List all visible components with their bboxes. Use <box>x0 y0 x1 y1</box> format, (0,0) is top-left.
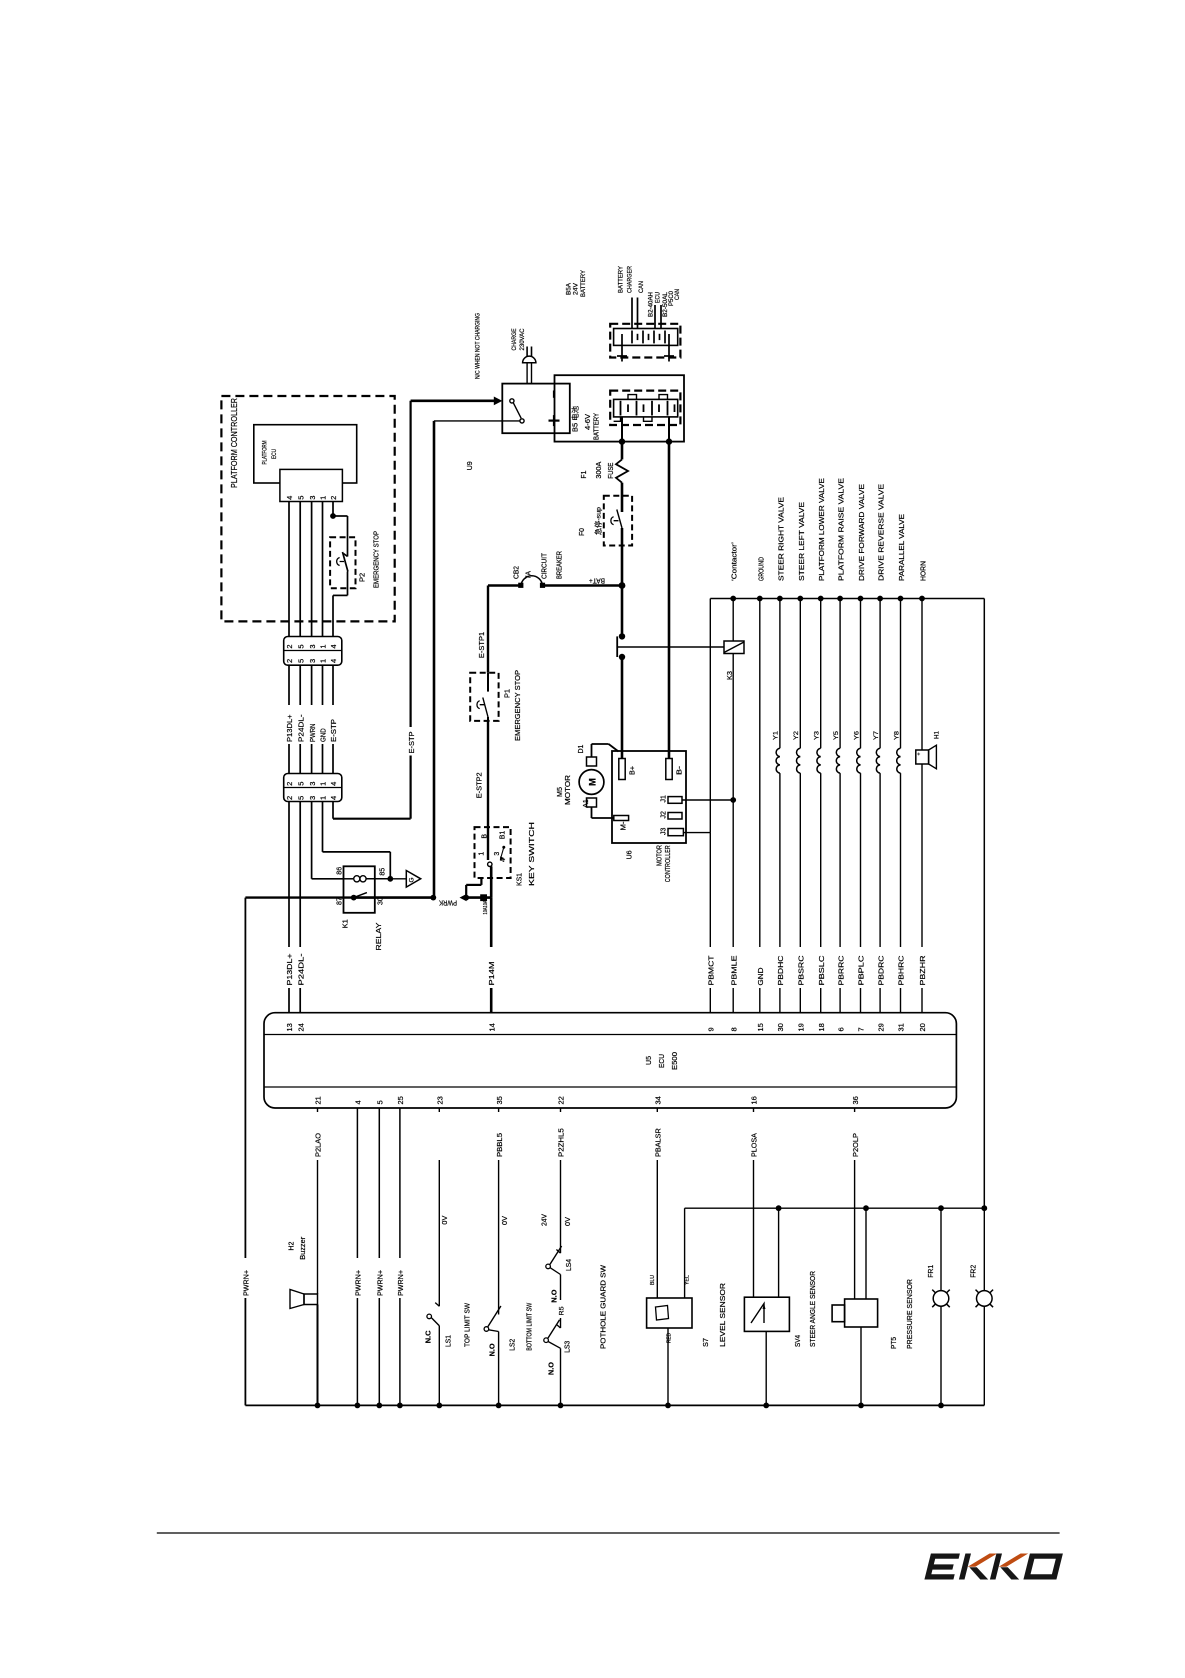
motor brush A1 <box>587 798 597 807</box>
wire PWRN between connectors <box>311 665 313 773</box>
net label PWRK (rotated 180) <box>439 899 457 906</box>
PWRN+ line x399.9 <box>399 1108 401 1405</box>
label 300A <box>596 461 603 478</box>
label B2-50AL <box>662 291 669 317</box>
svg-text:85: 85 <box>380 868 387 876</box>
wire pin2 upper segment <box>332 502 334 517</box>
rail label DRIVE REVERSE VALV <box>877 484 886 581</box>
lamp FR1 to bus <box>940 1306 942 1405</box>
PT5 bottom wire <box>860 1327 862 1405</box>
valve coil Y5 <box>836 599 840 1013</box>
svg-text:Y7: Y7 <box>873 731 880 740</box>
net label PWRN+ x357.4 <box>354 1269 363 1296</box>
horn line upper <box>921 599 923 751</box>
svg-text:CB2: CB2 <box>514 566 521 579</box>
svg-text:Y6: Y6 <box>853 731 860 740</box>
svg-text:PBZHR: PBZHR <box>918 955 927 986</box>
svg-text:+: + <box>917 752 923 755</box>
interlock pivot 1 <box>510 399 514 403</box>
pothole mid line <box>560 1275 562 1329</box>
svg-text:B: B <box>482 834 489 839</box>
lower connector pin 5 row1 <box>296 782 305 786</box>
svg-text:16: 16 <box>750 1096 759 1104</box>
svg-text:POTHOLE GUARD SW: POTHOLE GUARD SW <box>601 1265 608 1349</box>
label PRESSURE SENSOR <box>907 1279 914 1349</box>
wire E-STP down-right <box>333 802 411 819</box>
svg-text:B5A: B5A <box>566 283 573 295</box>
LS2 stub <box>489 1330 499 1332</box>
label 230VAC <box>519 328 526 350</box>
S7 internal element <box>656 1306 669 1321</box>
SV4 internal element <box>751 1304 766 1324</box>
wire KS1 to ECU pin14 <box>490 898 493 1013</box>
svg-text:CAN: CAN <box>638 281 645 293</box>
upper connector pin 2 row2 <box>285 659 294 663</box>
node FR1/bus <box>938 1403 944 1409</box>
P1 contact segment <box>487 673 489 692</box>
label LEVEL SENSOR <box>720 1283 727 1347</box>
svg-text:3: 3 <box>494 852 501 856</box>
lamp FR2 <box>976 1290 994 1308</box>
net label PBSLC <box>817 955 826 986</box>
steer angle line from pin16 <box>750 1108 759 1297</box>
label 10A10A <box>483 900 489 914</box>
label ECU <box>657 1054 666 1068</box>
svg-text:5: 5 <box>376 1100 385 1104</box>
net label PBPLC <box>857 955 866 986</box>
ECU bottom pin 4 <box>354 1100 363 1104</box>
rail label PLATFORM LOWER VAL <box>817 478 826 581</box>
arrow into interlock switch <box>494 397 503 406</box>
LS3 lever <box>548 1320 560 1339</box>
battery B5A terminal stub 1 <box>617 345 627 361</box>
svg-text:8: 8 <box>729 1027 738 1031</box>
net label GND <box>319 728 328 742</box>
svg-text:6: 6 <box>836 1027 845 1031</box>
svg-text:5: 5 <box>296 496 305 500</box>
KS1 feed segment <box>487 827 489 860</box>
rail label HORN <box>919 561 928 581</box>
ECU top pin 30 <box>776 1023 785 1031</box>
node K1 common <box>351 895 357 901</box>
svg-text:B-: B- <box>677 765 684 775</box>
node pothole/bus <box>558 1403 564 1409</box>
label 24V <box>542 1214 549 1226</box>
svg-text:Y3: Y3 <box>814 731 821 740</box>
F0 switch lever <box>617 510 622 529</box>
label H2 <box>289 1241 296 1250</box>
label CAN (charger) <box>638 281 645 293</box>
label FR1 <box>928 1265 935 1278</box>
ECU bottom pin 21 <box>314 1096 323 1104</box>
label J3 <box>661 828 668 836</box>
svg-text:N/C WHEN NOT CHARGING: N/C WHEN NOT CHARGING <box>475 313 482 379</box>
svg-text:P24DL-: P24DL- <box>296 953 305 986</box>
valve coil Y8 <box>897 599 901 1013</box>
upper connector pin 5 row2 <box>296 659 305 663</box>
svg-text:36: 36 <box>851 1096 860 1104</box>
lower connector pin 1 row1 <box>319 782 328 786</box>
svg-text:4: 4 <box>329 782 338 786</box>
ground line GND <box>759 599 761 1013</box>
LS1 lever <box>431 1318 439 1326</box>
node PWRN+/bus x399.9 <box>397 1403 403 1409</box>
label M (motor) <box>588 778 599 786</box>
svg-text:CHARGE: CHARGE <box>511 329 518 351</box>
svg-text:PBBL5: PBBL5 <box>495 1133 504 1157</box>
svg-text:30: 30 <box>378 897 385 905</box>
svg-text:86: 86 <box>337 867 344 875</box>
lower connector pin 1 row2 <box>319 796 328 800</box>
upper connector pin 1 row2 <box>319 659 328 663</box>
svg-text:E-STP2: E-STP2 <box>477 772 484 798</box>
svg-text:24V: 24V <box>542 1214 549 1226</box>
ECU top pin 15 <box>756 1023 765 1031</box>
svg-text:18: 18 <box>817 1023 826 1031</box>
ECU bottom pin 36 <box>851 1096 860 1104</box>
steer angle sensor SV4 box <box>744 1297 789 1331</box>
svg-text:EMERGENCY STOP: EMERGENCY STOP <box>513 670 522 741</box>
contactor coil K3 box <box>724 641 744 654</box>
svg-text:25: 25 <box>396 1096 405 1104</box>
upper connector pin 3 row2 <box>308 659 317 663</box>
svg-text:E-STP1: E-STP1 <box>477 632 486 658</box>
svg-text:CAN: CAN <box>674 289 681 300</box>
wire pin2 jog to P2 <box>333 516 348 557</box>
lamp FR1 <box>932 1290 950 1308</box>
svg-text:Y5: Y5 <box>833 731 840 740</box>
net label P13DL+ at ECU <box>285 953 294 986</box>
svg-text:LS3: LS3 <box>565 1341 572 1353</box>
svg-text:ECU: ECU <box>655 292 662 303</box>
svg-text:FR1: FR1 <box>928 1265 935 1278</box>
wire E-STP riser <box>410 401 412 819</box>
wire J3 riser <box>683 599 710 833</box>
battery B5A cell box <box>614 329 678 346</box>
P2 switch contact <box>344 554 348 557</box>
pressure line from pin36 <box>851 1108 860 1299</box>
horn H1 symbol <box>916 745 937 769</box>
label M- <box>621 821 628 831</box>
KS1 pin 1 label <box>479 852 486 856</box>
wire pin8 drop <box>732 800 734 1013</box>
svg-text:YEL: YEL <box>685 1275 691 1285</box>
ECU top pin 29 <box>876 1023 885 1031</box>
battery B5 plates <box>621 401 675 416</box>
svg-text:P24DL-: P24DL- <box>296 714 305 742</box>
key switch KS1 dashed box <box>475 827 511 878</box>
svg-text:KS1: KS1 <box>515 873 524 886</box>
label BATTERY (charger) <box>618 265 625 293</box>
svg-text:0V: 0V <box>565 1217 572 1226</box>
svg-text:S7: S7 <box>703 1338 710 1347</box>
label P1 <box>503 689 512 698</box>
label SV4 <box>795 1335 802 1347</box>
svg-text:7A: 7A <box>526 571 533 579</box>
svg-text:HORN: HORN <box>919 561 928 581</box>
svg-text:2: 2 <box>285 659 294 663</box>
upper connector pin 2 row1 <box>285 644 294 648</box>
svg-text:PBSLC: PBSLC <box>817 955 826 986</box>
P2 mushroom actuator <box>337 558 344 566</box>
svg-text:31: 31 <box>897 1023 906 1031</box>
svg-text:GND: GND <box>319 728 328 742</box>
svg-text:3: 3 <box>308 659 317 663</box>
ECU U5 box <box>264 1013 956 1108</box>
wire charger CAN a <box>631 298 633 329</box>
lower connector pin 4 row2 <box>329 796 338 800</box>
svg-text:CONTROLLER: CONTROLLER <box>665 845 672 882</box>
LS3 contact tick <box>556 1324 560 1328</box>
upper connector divider <box>284 650 342 652</box>
label B- <box>677 765 684 775</box>
svg-text:LS2: LS2 <box>510 1339 517 1351</box>
svg-text:B1: B1 <box>500 831 507 840</box>
buzzer line to bus <box>317 1305 319 1406</box>
contactor line mid <box>732 654 734 801</box>
label EMERGENCY STOP (P1) <box>513 670 522 741</box>
battery B5 bottom jumpers <box>614 417 652 421</box>
net label P24DL- at ECU <box>296 953 305 986</box>
svg-text:J1: J1 <box>661 795 668 803</box>
svg-text:300A: 300A <box>596 461 603 478</box>
node J1/contactor <box>730 797 736 803</box>
node PT5/bus <box>858 1403 864 1409</box>
motor M5 circle <box>579 770 604 795</box>
svg-text:230VAC: 230VAC <box>519 328 526 350</box>
svg-text:LS1: LS1 <box>446 1335 453 1347</box>
level sensor S7 box <box>647 1298 692 1328</box>
svg-text:DRIVE FORWARD VALVE: DRIVE FORWARD VALVE <box>857 484 866 581</box>
minus sign (charger out) <box>553 391 555 398</box>
wire pin3 platform <box>311 502 313 637</box>
sensor rail <box>685 1207 985 1209</box>
svg-text:PWRN+: PWRN+ <box>242 1269 251 1296</box>
ECU top pin 31 <box>897 1023 906 1031</box>
lower connector pin 4 row1 <box>329 782 338 786</box>
CB2 end square 2 <box>540 583 545 588</box>
svg-text:U6: U6 <box>625 850 634 859</box>
P1 switch lever <box>483 698 488 718</box>
label ECU <box>271 449 278 459</box>
lower connector pin 3 row1 <box>308 782 317 786</box>
svg-text:P14M: P14M <box>487 962 496 986</box>
wire fuse to F0 <box>621 483 624 512</box>
svg-text:PWRN: PWRN <box>308 724 317 742</box>
svg-text:PLATFORM CONTROLLER: PLATFORM CONTROLLER <box>230 398 239 488</box>
ECU top pin 13 <box>285 1023 294 1031</box>
charge plug cord <box>527 363 531 384</box>
KS1 pin 4 label <box>500 858 507 862</box>
disconnect F0 dashed box <box>604 496 632 546</box>
wire E-STP1 <box>487 586 489 673</box>
label D1 <box>578 744 585 753</box>
label 0V (pothole) <box>565 1217 572 1226</box>
label STEER ANGLE SENSOR <box>810 1271 817 1347</box>
label LS3 <box>565 1341 572 1353</box>
node S7/bus <box>665 1403 671 1409</box>
svg-text:24: 24 <box>296 1023 305 1031</box>
battery B5 top jumpers <box>628 395 668 400</box>
K1 switch wire out <box>354 896 434 899</box>
emergency stop P2 dashed box <box>330 537 355 588</box>
ECU bottom pin 16 <box>750 1096 759 1104</box>
P1 mushroom actuator <box>477 701 485 709</box>
rail junction nodes <box>730 596 925 602</box>
label Y5 <box>833 731 840 740</box>
wire E-STP between connectors <box>332 665 334 773</box>
label N.O (LS4) <box>550 1289 559 1302</box>
svg-text:1: 1 <box>319 782 328 786</box>
label H1 <box>934 731 941 739</box>
LS1 contact tick <box>435 1303 439 1307</box>
svg-text:PWRK: PWRK <box>439 899 457 906</box>
tab pin 2 <box>329 496 338 500</box>
label FR2 <box>971 1265 978 1278</box>
battery B5 dashed box <box>610 391 680 425</box>
svg-text:2: 2 <box>285 796 294 800</box>
label P2 <box>358 573 367 582</box>
U6 terminal B- <box>666 759 672 780</box>
wire GND between connectors <box>322 665 324 773</box>
EKKO logo <box>924 1554 1062 1580</box>
platform connector tab <box>280 469 343 501</box>
label N/C WHEN NOT CHARGING <box>475 313 482 379</box>
net label PWRN+ x379.3 <box>376 1269 385 1296</box>
label MOTOR (M5) <box>565 775 572 805</box>
svg-text:SV4: SV4 <box>795 1335 802 1347</box>
wire E-STP2 <box>487 717 489 827</box>
label B5 DianChi <box>571 406 580 432</box>
LS1 lower line <box>438 1326 440 1406</box>
svg-text:2: 2 <box>285 782 294 786</box>
label BAT+ (rotated) <box>589 577 605 584</box>
svg-text:BAT+: BAT+ <box>589 577 605 584</box>
svg-text:9: 9 <box>707 1027 716 1031</box>
svg-text:3: 3 <box>308 496 317 500</box>
svg-text:CHARGER: CHARGER <box>627 266 634 293</box>
label CONTROLLER <box>665 845 672 882</box>
supply rail <box>710 598 984 600</box>
LS4 pivot <box>546 1264 551 1269</box>
svg-text:BATTERY: BATTERY <box>618 265 625 293</box>
svg-text:Y1: Y1 <box>773 731 780 740</box>
svg-text:STEER RIGHT VALVE: STEER RIGHT VALVE <box>776 497 785 581</box>
svg-text:22: 22 <box>557 1096 566 1104</box>
label F0 <box>579 528 586 536</box>
svg-text:U9: U9 <box>465 461 474 470</box>
circuit breaker CB2 arc <box>521 576 543 586</box>
U6 terminal B+ <box>619 759 625 780</box>
fuse F1 300A <box>616 459 628 482</box>
CB2 end square 1 <box>518 583 523 588</box>
label BREAKER <box>557 551 564 579</box>
svg-text:20: 20 <box>918 1023 927 1031</box>
battery B5A terminal stub 2 <box>664 345 674 361</box>
ECU inner line bottom <box>264 1086 956 1088</box>
contactor main contact bar <box>616 636 618 657</box>
KS1 pin 3 label <box>494 852 501 856</box>
K3 coil diagonal <box>724 642 744 653</box>
label Buzzer <box>300 1236 307 1260</box>
svg-text:4-6V: 4-6V <box>585 414 592 430</box>
label K3 <box>727 671 734 680</box>
net label P14M <box>487 962 496 986</box>
valve coil Y1 <box>776 599 780 1013</box>
sensor rail nodes <box>776 1205 988 1211</box>
svg-text:Y2: Y2 <box>793 731 800 740</box>
upper connector pin 1 row1 <box>319 644 328 648</box>
label A1 <box>583 799 590 808</box>
buzzer line from pin21 <box>314 1108 323 1294</box>
K1 pin 30 label <box>378 897 385 905</box>
ECU top pin 18 <box>817 1023 826 1031</box>
svg-text:RED: RED <box>667 1333 673 1343</box>
U6 terminal J3 <box>668 829 683 836</box>
wire charger CAN b <box>637 298 639 329</box>
pothole lower line <box>560 1348 562 1405</box>
rail label STEER LEFT VALVE <box>797 502 806 581</box>
S7 YEL wire <box>684 1208 686 1298</box>
svg-text:CIRCUIT: CIRCUIT <box>542 552 549 579</box>
svg-text:N.O: N.O <box>488 1343 497 1356</box>
ECU top pin 20 <box>918 1023 927 1031</box>
svg-text:PBPLC: PBPLC <box>857 955 866 986</box>
label LS1 <box>446 1335 453 1347</box>
svg-text:15: 15 <box>756 1023 765 1031</box>
ECU top pin 9 <box>707 1027 716 1031</box>
lower connector pin 5 row2 <box>296 796 305 800</box>
svg-text:EMERGENCY STOP: EMERGENCY STOP <box>372 531 381 588</box>
svg-text:MOTOR: MOTOR <box>657 845 664 866</box>
label 7A <box>526 571 533 579</box>
net label E-STP <box>329 719 338 742</box>
wire PWRN to relay coil <box>312 802 344 879</box>
ECU top pin 14 <box>487 1023 496 1031</box>
svg-text:4: 4 <box>329 644 338 648</box>
node PWRN+/bus x357.4 <box>355 1403 361 1409</box>
ECU bottom pin 22 <box>557 1096 566 1104</box>
net label PBDHC <box>776 955 785 986</box>
svg-text:24V: 24V <box>573 283 580 295</box>
label 4-6V <box>585 414 592 430</box>
node pin2/P2 <box>330 513 336 519</box>
wire F0 to BAT+ node <box>621 528 624 586</box>
valve coil Y3 <box>817 599 821 1013</box>
label B+ <box>630 766 637 775</box>
svg-text:19: 19 <box>797 1023 806 1031</box>
rail label GROUND <box>756 557 765 581</box>
LS1 pivot <box>427 1314 432 1319</box>
valve coil Y7 <box>876 599 880 1013</box>
motor brush D1 <box>587 757 597 766</box>
svg-text:PWRN+: PWRN+ <box>396 1269 405 1296</box>
label TOP LIMIT SW <box>465 1303 472 1347</box>
label KS1 <box>515 873 524 886</box>
svg-text:PBRRC: PBRRC <box>836 955 845 986</box>
node battery- on box edge <box>666 438 672 444</box>
rail label DRIVE FORWARD VALV <box>857 484 866 581</box>
wire pin1 platform <box>322 502 324 637</box>
label YEL <box>685 1275 691 1285</box>
svg-text:R5: R5 <box>559 1306 566 1315</box>
LS2 lever <box>488 1306 501 1327</box>
charge plug prongs <box>527 347 531 357</box>
wire CB2 to corner <box>488 584 520 586</box>
svg-text:BLU: BLU <box>650 1275 656 1285</box>
pressure sensor PT5 box <box>845 1299 878 1327</box>
rail label STEER RIGHT VALVE <box>776 497 785 581</box>
